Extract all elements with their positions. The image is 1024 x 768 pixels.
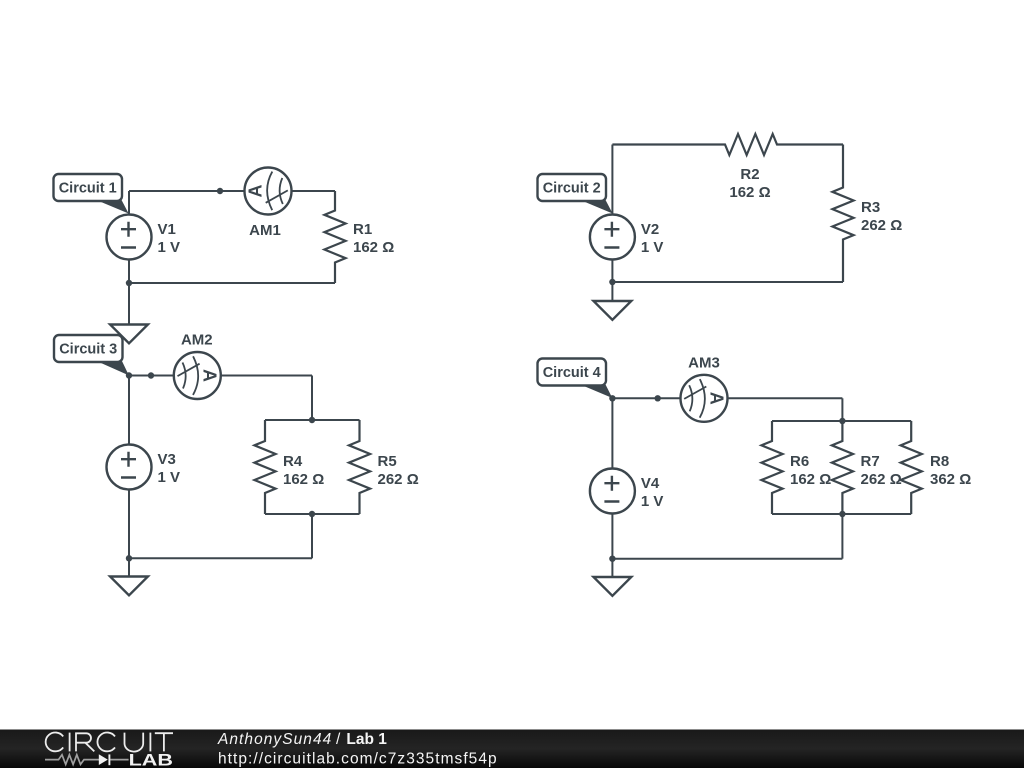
junction node C1 bottom node xyxy=(126,280,132,286)
wire C3 parallel bottom bus xyxy=(265,513,360,515)
svg-text:Lab 1: Lab 1 xyxy=(346,731,387,748)
wire C1 bottom: R1 to V1- xyxy=(129,282,335,284)
ground GND4 xyxy=(594,577,632,596)
wire AM2 to corner xyxy=(221,375,312,377)
svg-text:R3: R3 xyxy=(861,199,880,216)
wire V3 bottom lead xyxy=(128,490,130,559)
resistor R3 xyxy=(832,145,902,283)
svg-text:162 Ω: 162 Ω xyxy=(283,471,324,488)
resistor R5 xyxy=(349,420,419,514)
svg-text:V3: V3 xyxy=(158,451,176,468)
node label callout Circuit 3 xyxy=(54,335,129,375)
junction node C2 bottom node xyxy=(609,279,615,285)
svg-text:A: A xyxy=(200,369,220,382)
footer bar xyxy=(0,730,1024,768)
junction node C3 left node xyxy=(126,372,132,378)
wire C1 top: V1+ to AM1 xyxy=(129,190,245,192)
wire V4 bottom lead xyxy=(611,514,613,559)
svg-text:Circuit 1: Circuit 1 xyxy=(59,181,117,197)
wire C2 bottom rail xyxy=(612,281,843,283)
svg-text:AM1: AM1 xyxy=(249,222,281,239)
logo diode xyxy=(99,754,108,765)
wire C3 ground stem xyxy=(128,558,130,576)
wire V3 top lead xyxy=(128,376,130,445)
resistor R6 xyxy=(761,421,831,514)
svg-text:V1: V1 xyxy=(158,221,176,238)
junction node C4 wire node xyxy=(655,395,661,401)
resistor R8 xyxy=(901,421,972,514)
wire V2 top lead up xyxy=(611,145,613,215)
node label callout Circuit 1 xyxy=(54,174,129,214)
junction node C3 wire node xyxy=(148,372,154,378)
junction node C4 top bus node xyxy=(839,418,845,424)
junction node C3 bottom bus node xyxy=(309,511,315,517)
wire C2 ground stem xyxy=(611,282,613,301)
svg-text:Circuit 2: Circuit 2 xyxy=(543,181,601,197)
wire C1 top: AM1 to R1 xyxy=(292,190,336,192)
svg-text:AM2: AM2 xyxy=(181,332,213,349)
svg-text:1 V: 1 V xyxy=(641,239,664,256)
junction node C1 top node xyxy=(217,188,223,194)
ground GND2 xyxy=(594,301,632,320)
svg-text:1 V: 1 V xyxy=(158,239,181,256)
logo resistor-diode symbol xyxy=(45,755,99,765)
svg-text:/: / xyxy=(336,731,341,748)
svg-text:V4: V4 xyxy=(641,475,660,492)
ground GND1 xyxy=(110,325,148,344)
wire C4 bottom rail xyxy=(612,558,842,560)
svg-text:A: A xyxy=(246,185,266,198)
svg-text:R7: R7 xyxy=(861,453,880,470)
wire C4 ground stem xyxy=(611,559,613,577)
svg-text:1 V: 1 V xyxy=(158,469,181,486)
svg-text:LAB: LAB xyxy=(129,750,173,768)
svg-text:R6: R6 xyxy=(790,453,809,470)
svg-text:262 Ω: 262 Ω xyxy=(861,471,902,488)
svg-text:R1: R1 xyxy=(353,221,372,238)
junction node C4 bottom bus node xyxy=(839,511,845,517)
resistor R1 xyxy=(324,191,394,283)
voltage source V3 xyxy=(107,445,181,490)
wire corner down to top bus xyxy=(841,398,843,421)
svg-text:162 Ω: 162 Ω xyxy=(729,184,770,201)
svg-text:V2: V2 xyxy=(641,221,659,238)
wire C3 bottom rail xyxy=(129,557,312,559)
CircuitLab logo word CIRCUIT xyxy=(46,733,173,752)
junction node C4 left node xyxy=(609,395,615,401)
voltage source V1 xyxy=(107,215,181,260)
wire C4 parallel top bus xyxy=(772,420,911,422)
svg-text:R8: R8 xyxy=(930,453,949,470)
svg-text:Circuit 3: Circuit 3 xyxy=(59,342,117,358)
wire AM3 to corner xyxy=(728,397,843,399)
svg-text:AM3: AM3 xyxy=(688,354,720,371)
svg-text:262 Ω: 262 Ω xyxy=(861,217,902,234)
wire V1 top lead xyxy=(128,191,130,215)
wire C1 ground stem xyxy=(128,283,130,325)
ground GND3 xyxy=(110,577,148,596)
resistor R2 xyxy=(612,134,843,201)
resistor R7 xyxy=(832,421,902,514)
wire V1 bottom lead xyxy=(128,260,130,284)
ammeter AM2 xyxy=(174,332,221,400)
junction node C3 bottom node xyxy=(126,555,132,561)
svg-text:A: A xyxy=(706,392,726,405)
svg-text:AnthonySun44: AnthonySun44 xyxy=(217,731,332,748)
wire bus down xyxy=(311,514,313,558)
svg-text:R4: R4 xyxy=(283,453,303,470)
wire C4 node to AM3 xyxy=(612,397,680,399)
wire V2 bottom lead xyxy=(611,260,613,283)
svg-text:http://circuitlab.com/c7z335tm: http://circuitlab.com/c7z335tmsf54p xyxy=(218,751,498,768)
svg-text:R5: R5 xyxy=(378,453,397,470)
junction node C4 bottom node xyxy=(609,556,615,562)
svg-text:162 Ω: 162 Ω xyxy=(790,471,831,488)
node label callout Circuit 2 xyxy=(538,174,613,214)
wire C3 node to AM2 xyxy=(129,375,174,377)
node label callout Circuit 4 xyxy=(538,359,613,399)
svg-text:1 V: 1 V xyxy=(641,493,664,510)
ammeter AM1 xyxy=(245,168,292,240)
ammeter AM3 xyxy=(681,354,728,422)
wire C4 parallel bottom bus xyxy=(772,513,911,515)
voltage source V2 xyxy=(590,215,664,260)
svg-text:362 Ω: 362 Ω xyxy=(930,471,971,488)
svg-text:Circuit 4: Circuit 4 xyxy=(543,365,601,381)
wire V4 top lead xyxy=(611,398,613,468)
junction node C3 top bus node xyxy=(309,417,315,423)
wire corner down to top bus xyxy=(311,376,313,421)
svg-text:162 Ω: 162 Ω xyxy=(353,239,394,256)
wire C3 parallel top bus xyxy=(265,419,360,421)
wire bus down xyxy=(841,514,843,559)
resistor R4 xyxy=(254,420,324,514)
svg-text:262 Ω: 262 Ω xyxy=(378,471,419,488)
svg-text:R2: R2 xyxy=(740,166,759,183)
voltage source V4 xyxy=(590,469,664,514)
